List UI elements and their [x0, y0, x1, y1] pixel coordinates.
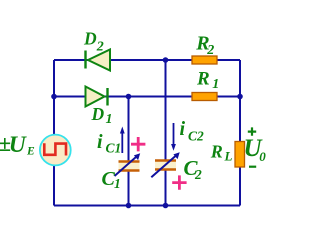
svg-text:C1: C1: [106, 140, 122, 155]
svg-text:R: R: [196, 69, 210, 90]
svg-text:E: E: [26, 146, 35, 158]
svg-text:2: 2: [96, 40, 104, 55]
svg-text:D: D: [83, 29, 97, 49]
svg-text:2: 2: [206, 43, 214, 58]
svg-text:i: i: [97, 131, 103, 153]
svg-text:i: i: [180, 118, 186, 140]
svg-text:R: R: [210, 141, 223, 161]
svg-text:1: 1: [212, 77, 219, 92]
svg-text:C2: C2: [188, 129, 204, 144]
svg-text:1: 1: [106, 112, 113, 127]
svg-text:0: 0: [259, 149, 266, 164]
svg-text:2: 2: [194, 167, 202, 182]
svg-text:1: 1: [114, 176, 121, 191]
svg-text:U: U: [9, 132, 27, 158]
svg-text:L: L: [224, 149, 233, 164]
svg-text:D: D: [91, 104, 105, 124]
